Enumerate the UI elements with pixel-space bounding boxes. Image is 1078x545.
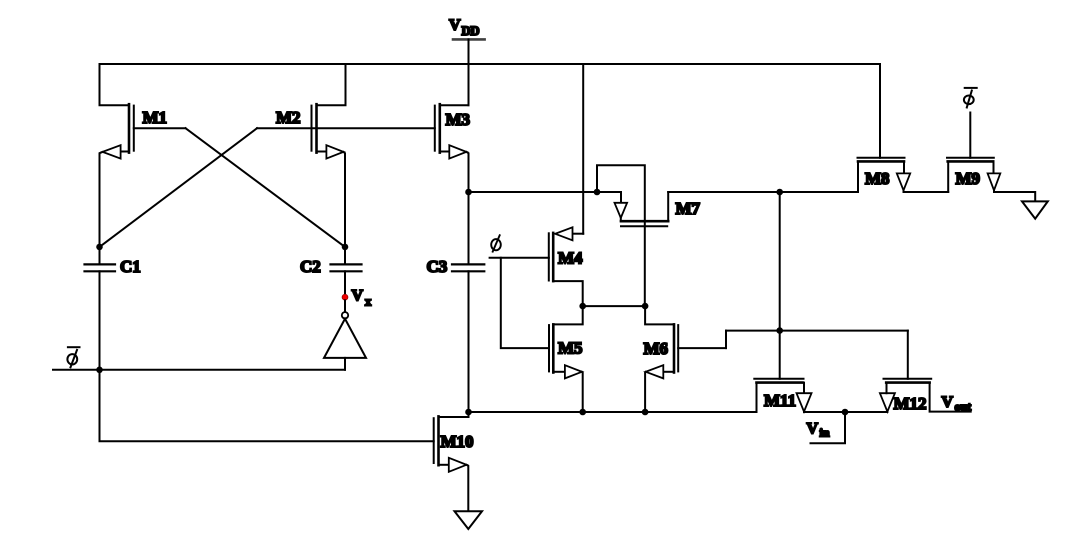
node M11 gate bbox=[776, 327, 783, 334]
transistor M11 bbox=[754, 379, 845, 412]
wire VDD stub to rail and M3 drain riser bbox=[468, 39, 470, 105]
svg-text:M5: M5 bbox=[558, 339, 583, 358]
svg-text:M6: M6 bbox=[644, 339, 669, 358]
wire cross-couple diagonal M1 gate to C2 node bbox=[186, 128, 346, 247]
svg-text:M7: M7 bbox=[676, 199, 701, 218]
label phi (clock) bbox=[491, 235, 501, 251]
svg-text:M2: M2 bbox=[276, 108, 301, 127]
svg-text:C1: C1 bbox=[120, 257, 141, 276]
node drain M3 / C3 bbox=[465, 189, 472, 196]
label phibar (left) bbox=[67, 347, 79, 367]
wire C1 column down to M10 gate bbox=[100, 370, 434, 441]
ground (M9) bbox=[1022, 201, 1048, 218]
wire phibar line (left) bbox=[53, 369, 345, 371]
transistor M4 bbox=[549, 227, 583, 306]
ground (M10) bbox=[455, 511, 483, 529]
svg-text:M4: M4 bbox=[558, 249, 583, 268]
svg-text:M11: M11 bbox=[764, 391, 796, 410]
transistor M5 bbox=[549, 306, 583, 412]
svg-text:C3: C3 bbox=[427, 257, 448, 276]
svg-text:M1: M1 bbox=[143, 108, 168, 127]
transistor M8 bbox=[858, 64, 949, 192]
wire Vin stub bbox=[811, 412, 846, 443]
wire M7 gate loop bbox=[597, 165, 645, 306]
svg-text:M3: M3 bbox=[446, 110, 471, 129]
wire gate bus y=331 bbox=[726, 330, 908, 332]
label phibar (right) bbox=[964, 88, 977, 108]
node M8 branch bbox=[776, 189, 783, 196]
wire M11 gate drop bbox=[779, 331, 781, 379]
VDD supply bar bbox=[453, 38, 485, 41]
svg-text:V: V bbox=[807, 421, 819, 438]
node C1 top bbox=[96, 244, 103, 251]
svg-text:in: in bbox=[820, 426, 830, 440]
svg-text:DD: DD bbox=[462, 24, 480, 38]
node Vx (red) bbox=[342, 294, 348, 300]
svg-text:M9: M9 bbox=[956, 169, 981, 188]
svg-text:out: out bbox=[955, 400, 972, 414]
wire phi input bbox=[490, 257, 549, 259]
transistor M3 bbox=[435, 104, 469, 192]
capacitor C1 bbox=[85, 247, 116, 370]
capacitor C3 bbox=[452, 192, 484, 412]
svg-text:V: V bbox=[352, 288, 364, 305]
transistor M12 bbox=[845, 379, 971, 412]
transistor M6 bbox=[645, 306, 726, 412]
node M7 gate loop bbox=[594, 189, 601, 196]
transistor M7 bbox=[615, 192, 669, 226]
wire M6 gate step up bbox=[725, 331, 727, 349]
wire mid horizontal net y=192 bbox=[469, 191, 622, 193]
node Vin bbox=[842, 409, 849, 416]
capacitor C2 bbox=[331, 247, 362, 294]
svg-text:x: x bbox=[365, 295, 372, 309]
wire between drains bbox=[583, 305, 645, 307]
transistor M1 bbox=[100, 64, 186, 247]
svg-text:V: V bbox=[942, 394, 954, 411]
wire M8 source down to M11 bbox=[779, 192, 781, 331]
svg-text:M10: M10 bbox=[441, 432, 474, 451]
transistor M9 bbox=[947, 113, 1035, 202]
node phibar / C1 column bbox=[96, 367, 103, 374]
wire mid vertical from rail bbox=[582, 64, 584, 234]
svg-text:M8: M8 bbox=[865, 169, 890, 188]
svg-text:M12: M12 bbox=[894, 394, 927, 413]
wire M12 gate drop bbox=[907, 331, 909, 379]
node M5 source bbox=[579, 409, 586, 416]
node M4 drain / M5 drain bbox=[579, 303, 586, 310]
transistor M10 bbox=[434, 412, 469, 511]
node M6 source bbox=[642, 409, 649, 416]
node M10 drain bbox=[465, 409, 472, 416]
node C2 top bbox=[342, 244, 349, 251]
wire M2/M3 gate line bbox=[257, 127, 435, 129]
svg-text:C2: C2 bbox=[300, 257, 321, 276]
wire bottom net y=412 bbox=[469, 411, 757, 413]
inverter U1 bbox=[324, 300, 366, 370]
svg-text:V: V bbox=[449, 17, 461, 34]
node M6 drain / M7 gate bbox=[642, 303, 649, 310]
wire VDD rail bbox=[100, 63, 881, 65]
transistor M2 bbox=[312, 64, 346, 247]
wire cross-couple diagonal M2 gate to C1 node bbox=[100, 128, 258, 247]
